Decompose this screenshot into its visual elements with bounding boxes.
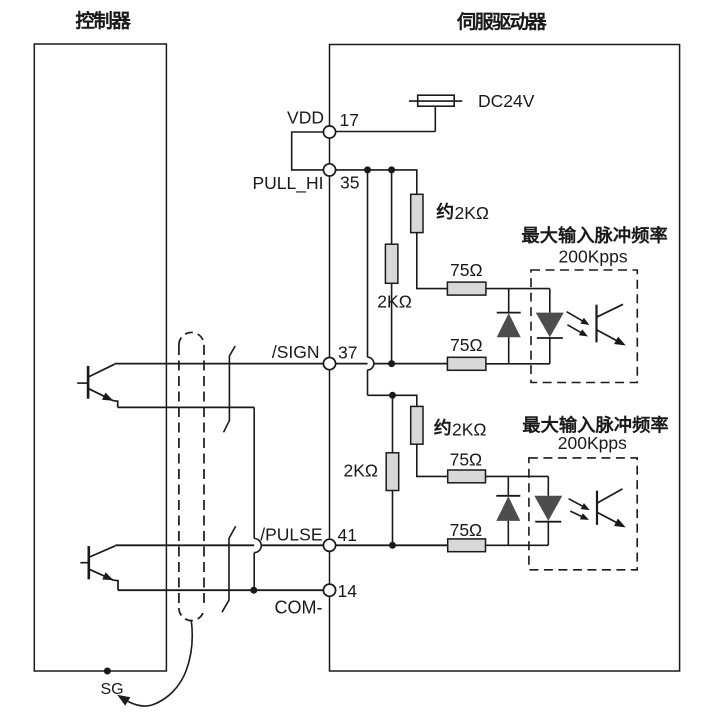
svg-text:/PULSE: /PULSE xyxy=(260,524,322,544)
svg-text:37: 37 xyxy=(338,343,357,363)
svg-text:75Ω: 75Ω xyxy=(450,260,483,280)
svg-text:75Ω: 75Ω xyxy=(450,450,483,470)
svg-text:2KΩ: 2KΩ xyxy=(455,203,490,223)
svg-text:75Ω: 75Ω xyxy=(450,335,483,355)
svg-text:DC24V: DC24V xyxy=(478,91,535,111)
svg-text:35: 35 xyxy=(340,173,359,193)
svg-text:200Kpps: 200Kpps xyxy=(558,433,627,453)
svg-text:41: 41 xyxy=(338,525,357,545)
svg-text:2KΩ: 2KΩ xyxy=(452,419,487,439)
svg-text:75Ω: 75Ω xyxy=(450,520,483,540)
svg-text:VDD: VDD xyxy=(287,108,324,128)
svg-text:17: 17 xyxy=(340,110,359,130)
svg-text:200Kpps: 200Kpps xyxy=(559,246,628,266)
svg-text:/SIGN: /SIGN xyxy=(272,342,320,362)
svg-text:PULL_HI: PULL_HI xyxy=(252,173,323,194)
svg-text:14: 14 xyxy=(338,581,358,601)
svg-text:2KΩ: 2KΩ xyxy=(377,292,412,312)
svg-text:2KΩ: 2KΩ xyxy=(344,461,379,481)
svg-text:COM-: COM- xyxy=(275,598,323,618)
